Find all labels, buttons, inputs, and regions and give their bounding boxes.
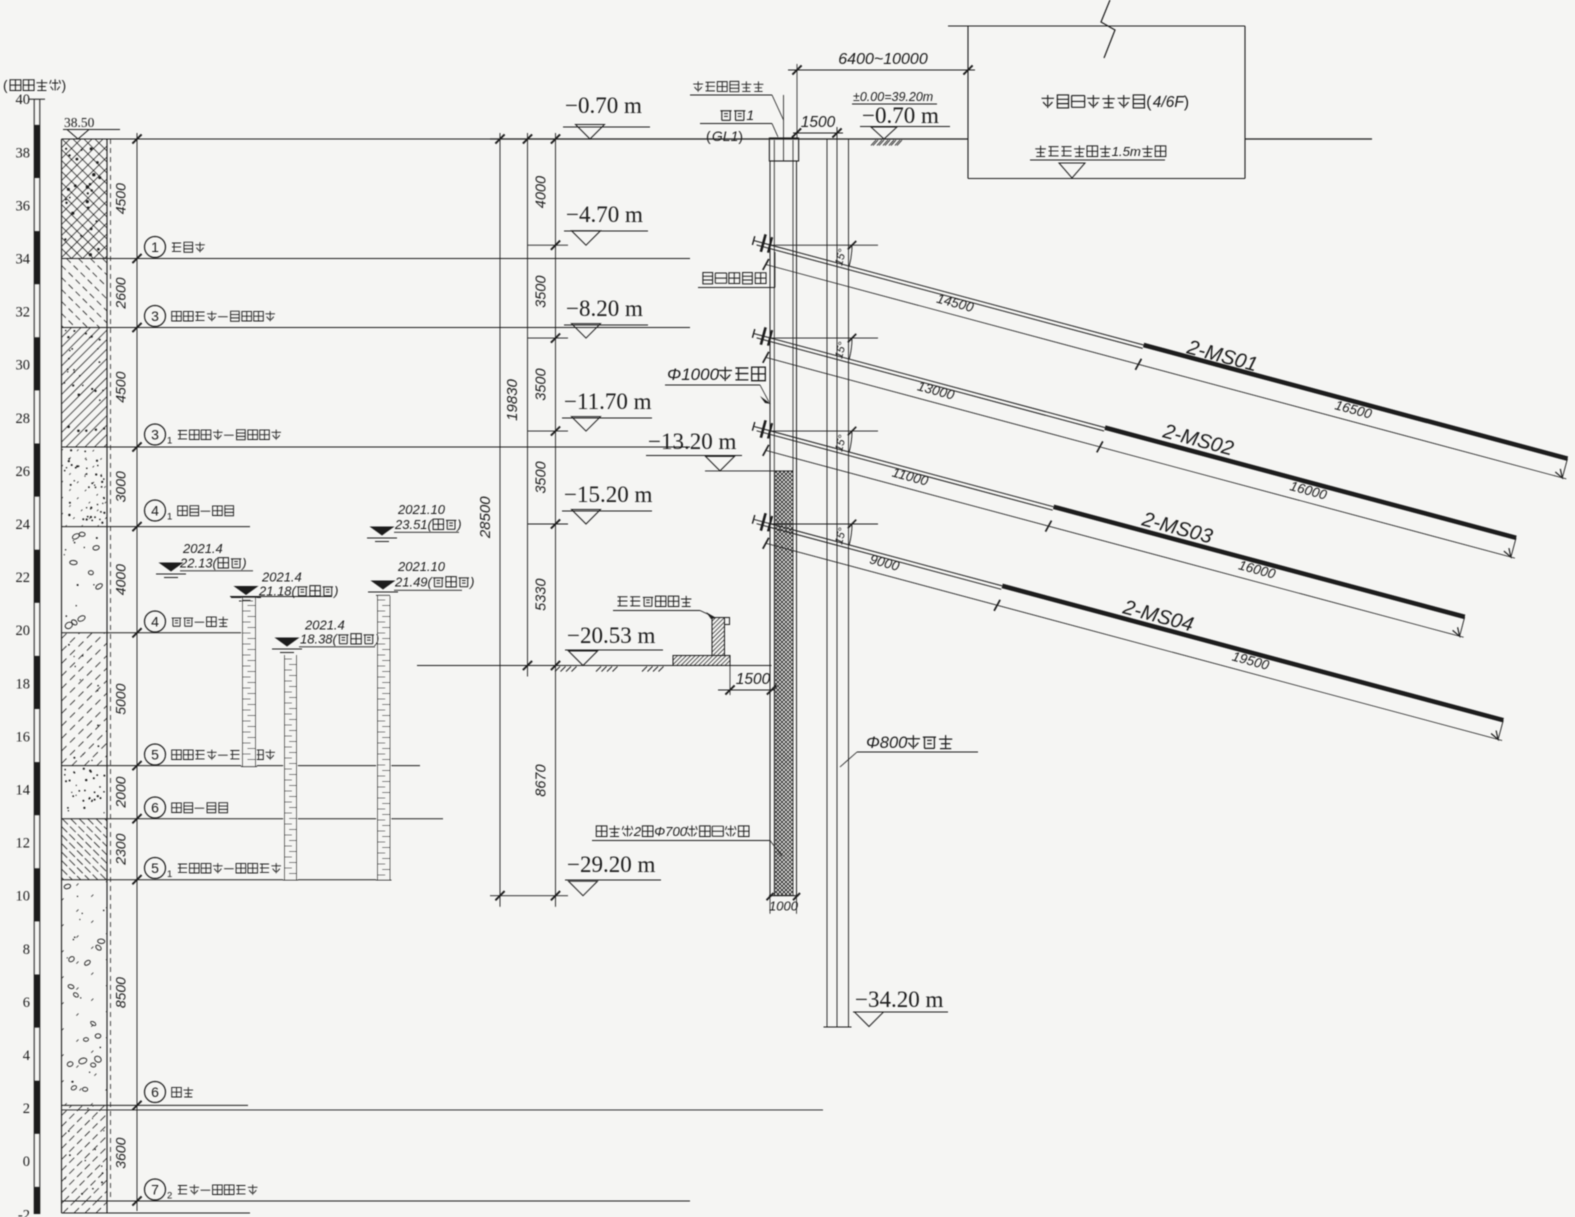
building title text bbox=[1042, 94, 1190, 111]
soil layer 3 hatch bbox=[62, 328, 108, 448]
svg-text:−4.70 m: −4.70 m bbox=[566, 202, 643, 227]
vertical dimension chain segments bbox=[534, 133, 561, 907]
svg-text:2600: 2600 bbox=[113, 277, 129, 309]
svg-text:6: 6 bbox=[151, 800, 159, 816]
svg-text:23.51(: 23.51( bbox=[394, 517, 434, 532]
soil layer 9 hatch (cobbles) bbox=[62, 880, 108, 1106]
water level 2021.10 21.49 (confined) well3 bbox=[368, 559, 474, 596]
svg-text:1000: 1000 bbox=[769, 899, 799, 914]
soil layer 10 hatch bbox=[62, 1105, 108, 1201]
svg-text:38.50: 38.50 bbox=[64, 115, 95, 130]
svg-text:−15.20 m: −15.20 m bbox=[564, 482, 652, 507]
pile bottom line bbox=[769, 895, 798, 897]
anchor 2-MS04 bbox=[752, 513, 1503, 740]
svg-text:1: 1 bbox=[746, 107, 754, 123]
svg-text:2021.10: 2021.10 bbox=[397, 559, 446, 574]
-13.20 level line bbox=[705, 470, 793, 472]
elevation marker -29.20 m bbox=[565, 852, 661, 896]
svg-text:2021.4: 2021.4 bbox=[261, 570, 302, 585]
svg-text:32: 32 bbox=[16, 305, 31, 321]
water level 2021.4 21.18 (confined) well1 bbox=[230, 570, 338, 602]
svg-text:4000: 4000 bbox=[113, 564, 129, 595]
svg-text:2: 2 bbox=[633, 824, 642, 839]
svg-text:12: 12 bbox=[16, 836, 31, 852]
svg-text:0: 0 bbox=[23, 1154, 30, 1170]
soil layer 5 hatch (gravel) bbox=[64, 532, 104, 630]
svg-text:3500: 3500 bbox=[534, 461, 550, 493]
label 护坡桩中心线 bbox=[690, 81, 784, 120]
svg-text:14: 14 bbox=[16, 783, 31, 799]
label 桩间设2根Φ700高压旋喷桩 bbox=[592, 824, 782, 856]
building break mark bbox=[1101, 0, 1115, 58]
soil layer label 41 粉砂—细砂 bbox=[145, 500, 234, 523]
svg-text:3600: 3600 bbox=[113, 1137, 129, 1168]
svg-text:6: 6 bbox=[151, 1084, 159, 1100]
svg-text:): ) bbox=[738, 128, 743, 144]
svg-text:2300: 2300 bbox=[113, 833, 129, 865]
svg-text:2000: 2000 bbox=[113, 776, 129, 808]
svg-text:40: 40 bbox=[16, 92, 31, 108]
dim 1500 pile to well bbox=[792, 114, 843, 138]
svg-text:−20.53 m: −20.53 m bbox=[567, 623, 655, 648]
left dimension chain bbox=[113, 133, 142, 1211]
svg-text:8: 8 bbox=[23, 942, 30, 958]
soil layer label 51 黏质粉土—粉质黏土 bbox=[145, 858, 282, 881]
svg-text:8500: 8500 bbox=[113, 977, 129, 1008]
svg-text:4: 4 bbox=[151, 503, 159, 519]
svg-text:28: 28 bbox=[16, 411, 31, 427]
soil layer 1 fill hatch (crosshatch) bbox=[62, 139, 108, 259]
soil layer 2 hatch bbox=[62, 259, 108, 328]
soil column outline bbox=[62, 139, 108, 1213]
soil layer label 31 黏质粉土—砂质粉土 bbox=[145, 424, 282, 447]
soil layer label 6 细砂—中砂 bbox=[145, 797, 228, 818]
svg-text:): ) bbox=[62, 78, 67, 93]
svg-text:±0.00=39.20m: ±0.00=39.20m bbox=[853, 90, 933, 104]
elevation marker -4.70 m bbox=[564, 202, 648, 245]
column extension line bbox=[110, 139, 112, 1201]
svg-text:−29.20 m: −29.20 m bbox=[567, 852, 655, 877]
svg-text:4000: 4000 bbox=[534, 176, 550, 208]
svg-text:18.38(: 18.38( bbox=[300, 632, 339, 647]
svg-text:3: 3 bbox=[151, 308, 159, 324]
svg-text:22.13(: 22.13( bbox=[179, 556, 219, 571]
svg-text:20: 20 bbox=[16, 623, 31, 639]
svg-text:1: 1 bbox=[167, 512, 172, 523]
svg-text:−0.70 m: −0.70 m bbox=[862, 103, 939, 128]
elevation marker -0.70 m (left) bbox=[563, 93, 650, 139]
vertical dimension chain 28500 bbox=[477, 133, 505, 907]
anchor 2-MS02 bbox=[752, 327, 1516, 558]
soil layer label 4 圆砾—卵石 bbox=[145, 611, 229, 632]
svg-text:−13.20 m: −13.20 m bbox=[648, 429, 736, 454]
svg-text:−34.20 m: −34.20 m bbox=[855, 987, 943, 1012]
elevation scale numbers bbox=[16, 92, 31, 1217]
svg-text:4: 4 bbox=[23, 1048, 31, 1064]
anchor 2-MS03 bbox=[752, 420, 1464, 637]
soil layer 6 hatch bbox=[62, 633, 108, 766]
svg-text:2: 2 bbox=[23, 1101, 30, 1117]
svg-text:28500: 28500 bbox=[477, 496, 494, 539]
svg-text:2021.4: 2021.4 bbox=[304, 618, 345, 633]
dewatering well lines bbox=[824, 127, 852, 1027]
svg-text:2021.10: 2021.10 bbox=[397, 502, 446, 517]
label 结构轮廓示意 bbox=[613, 596, 716, 619]
elevation marker -20.53 m bbox=[565, 623, 663, 666]
svg-text:−8.20 m: −8.20 m bbox=[566, 296, 643, 321]
svg-text:24: 24 bbox=[16, 517, 31, 533]
label 冠梁1 (GL1) bbox=[700, 107, 778, 144]
svg-text:5: 5 bbox=[151, 860, 159, 876]
excavation bottom hatch ticks bbox=[555, 667, 664, 672]
pile inner lines (curtain empty hole) bbox=[774, 140, 793, 896]
svg-text:1: 1 bbox=[167, 869, 172, 880]
svg-text:6400~10000: 6400~10000 bbox=[838, 51, 928, 68]
svg-text:Φ800: Φ800 bbox=[866, 734, 908, 752]
elevation marker -34.20 m bbox=[853, 987, 948, 1027]
label Φ800降水井 bbox=[840, 734, 978, 767]
soil layer 7 hatch (sand dots) bbox=[64, 768, 105, 814]
svg-text:19830: 19830 bbox=[504, 378, 521, 420]
elevation scale bar bbox=[29, 99, 45, 1214]
pile centerline bbox=[783, 95, 785, 161]
svg-text:22: 22 bbox=[16, 570, 31, 586]
soil layer 4 hatch (sand dots) bbox=[62, 447, 108, 527]
building 兴政东里住宅楼 bbox=[948, 26, 1245, 179]
svg-text:2021.4: 2021.4 bbox=[182, 541, 223, 556]
vertical dimension chain 19830 bbox=[504, 133, 532, 677]
svg-text:8670: 8670 bbox=[534, 764, 550, 796]
svg-text:Φ700: Φ700 bbox=[654, 824, 688, 839]
observation well 3 bbox=[376, 596, 392, 880]
svg-text:21.49(: 21.49( bbox=[394, 575, 434, 590]
soil layer label 3 粉质黏土—砂质粉土 bbox=[145, 306, 276, 327]
svg-text:36: 36 bbox=[16, 198, 31, 214]
excavation bottom line -20.53m bbox=[417, 665, 772, 667]
elevation marker -15.20 m bbox=[562, 482, 652, 524]
svg-text:3500: 3500 bbox=[534, 368, 550, 400]
layer boundary lines bbox=[62, 139, 824, 1213]
soil layer label 72 黏土—粉质黏土 bbox=[145, 1179, 258, 1202]
ground hatch ticks under -0.70 marker bbox=[871, 140, 900, 146]
soil layer label 6 卵石 bbox=[145, 1082, 194, 1103]
svg-text:5000: 5000 bbox=[113, 683, 129, 714]
structure outline sketch (foundation) bbox=[673, 618, 730, 666]
soil layer label 1 素填土 bbox=[145, 237, 205, 258]
svg-text:5330: 5330 bbox=[534, 579, 550, 611]
svg-text:38: 38 bbox=[16, 145, 31, 161]
soil layer 8 hatch bbox=[62, 819, 108, 880]
svg-text:4500: 4500 bbox=[113, 183, 129, 214]
svg-text:1: 1 bbox=[151, 239, 159, 255]
svg-text:GL1: GL1 bbox=[712, 128, 738, 144]
ground ticks right bbox=[873, 140, 902, 146]
svg-text:1.5m: 1.5m bbox=[1112, 144, 1141, 159]
svg-text:34: 34 bbox=[16, 252, 31, 268]
svg-text:18: 18 bbox=[16, 676, 31, 692]
svg-text:1500: 1500 bbox=[801, 114, 836, 131]
label ±0.00=39.20m bbox=[852, 90, 937, 104]
svg-text:3000: 3000 bbox=[113, 471, 129, 502]
svg-text:(: ( bbox=[706, 128, 711, 144]
water level 2021.4 18.38 (confined) well2 bbox=[272, 618, 379, 653]
observation well 2 bbox=[283, 655, 298, 880]
label Φ1000护坡桩 bbox=[665, 365, 771, 404]
svg-text:Φ1000: Φ1000 bbox=[667, 365, 720, 384]
foundation depth note bbox=[1030, 144, 1166, 178]
svg-text:6: 6 bbox=[23, 995, 30, 1011]
observation well 1 bbox=[241, 596, 257, 767]
svg-text:3500: 3500 bbox=[534, 276, 550, 308]
elevation scale title (绝对标高) bbox=[3, 78, 66, 93]
level extension lines bbox=[490, 245, 568, 896]
svg-text:): ) bbox=[1184, 94, 1189, 111]
svg-text:10: 10 bbox=[16, 889, 31, 905]
pile outer lines bbox=[770, 161, 797, 896]
elevation marker -8.20 m bbox=[564, 296, 648, 338]
elevation marker -13.20 m bbox=[646, 429, 742, 471]
anchor 2-MS01 bbox=[752, 234, 1567, 479]
svg-text:-2: -2 bbox=[18, 1207, 30, 1217]
svg-text:26: 26 bbox=[16, 464, 31, 480]
svg-text:4: 4 bbox=[151, 614, 159, 630]
soil layer label 5 粉质黏土—黏质粉土 bbox=[145, 744, 276, 765]
svg-text:−0.70 m: −0.70 m bbox=[565, 93, 642, 118]
top of column elevation 38.50 bbox=[63, 115, 120, 139]
ground line at -0.70m bbox=[490, 138, 968, 140]
svg-text:1500: 1500 bbox=[736, 671, 771, 688]
svg-text:7: 7 bbox=[151, 1182, 159, 1198]
elevation marker -11.70 m bbox=[562, 389, 652, 431]
water level 2021.4 22.13 (phreatic) bbox=[156, 541, 253, 578]
svg-text:(: ( bbox=[3, 78, 8, 93]
soil layer 10b hatch below last label bbox=[62, 1201, 108, 1213]
svg-text:16: 16 bbox=[16, 729, 31, 745]
water level 2021.10 23.51 (phreatic) well3 area bbox=[367, 502, 462, 542]
svg-text:3: 3 bbox=[151, 427, 159, 443]
pile shaft hatch below -13.20 bbox=[774, 471, 793, 896]
elevation marker -0.70 m (right) bbox=[860, 103, 950, 139]
svg-text:1: 1 bbox=[167, 436, 172, 447]
svg-text:30: 30 bbox=[16, 358, 31, 374]
ground line right of building bbox=[1245, 138, 1372, 140]
dim 6400~10000 bbox=[788, 51, 975, 138]
label 帷幕桩空孔 bbox=[698, 252, 775, 288]
svg-text:4/6F: 4/6F bbox=[1153, 94, 1186, 111]
dim 1500 at excavation bottom bbox=[718, 666, 776, 696]
crown beam box 冠梁1 bbox=[769, 138, 798, 161]
svg-text:(: ( bbox=[1146, 94, 1152, 111]
svg-text:4500: 4500 bbox=[113, 371, 129, 402]
svg-text:2: 2 bbox=[167, 1191, 172, 1202]
dim 1000 at pile bottom bbox=[767, 893, 801, 914]
svg-text:−11.70 m: −11.70 m bbox=[564, 389, 652, 414]
svg-text:5: 5 bbox=[151, 747, 159, 763]
